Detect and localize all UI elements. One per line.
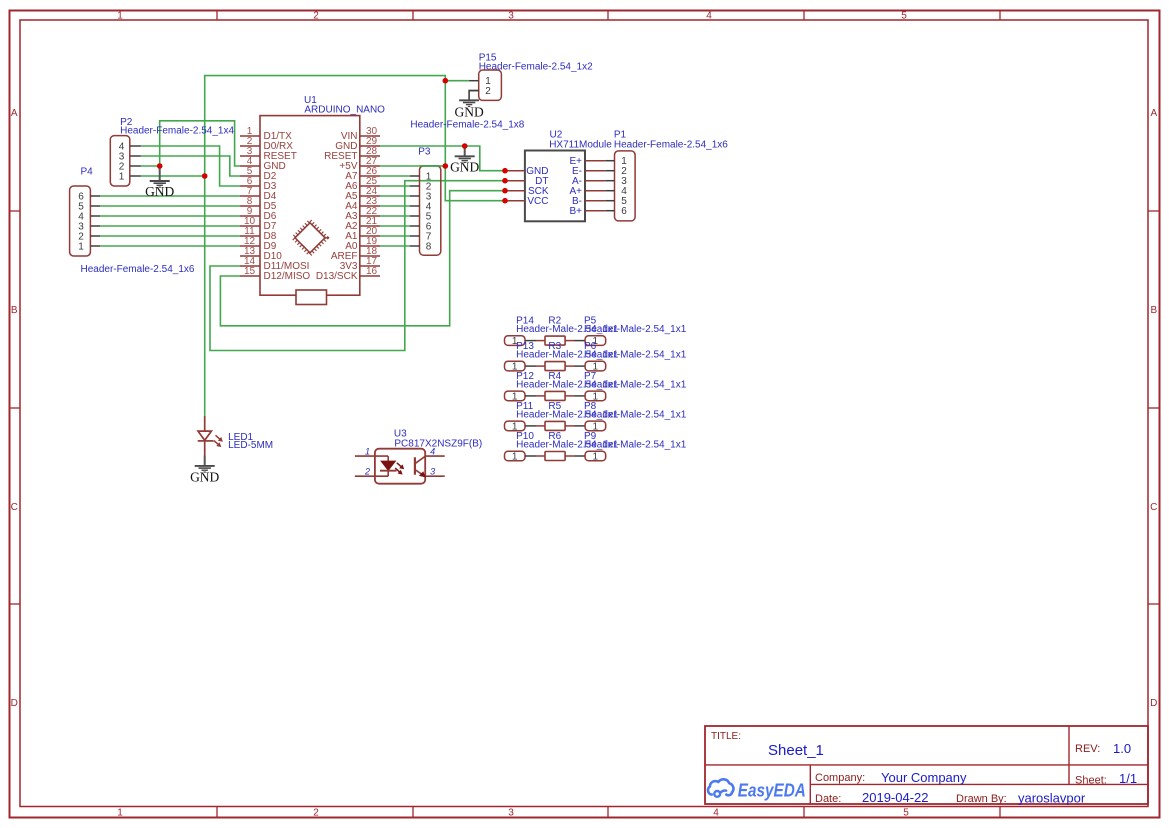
U1 pin 6 D3: [240, 176, 277, 192]
LED LED1 LED-5MM: [198, 416, 273, 456]
U1 pin 17 3V3: [340, 256, 380, 272]
svg-text:Header-Male-2.54_1x1: Header-Male-2.54_1x1: [584, 380, 687, 391]
wire U1 A2 to P3 pin6: [380, 225, 410, 227]
IC U2 HX711Module: [505, 130, 612, 222]
U1 pin 21 A2: [345, 216, 380, 232]
svg-text:Header-Male-2.54_1x1: Header-Male-2.54_1x1: [584, 440, 687, 451]
resistor R2: [536, 316, 575, 346]
connector P1 Header-Female-2.54_1x6: [605, 130, 728, 221]
ground symbol on U1 GND pin29 wire: [450, 146, 479, 175]
svg-text:REV:: REV:: [1075, 743, 1100, 755]
svg-text:yaroslavpor: yaroslavpor: [1018, 791, 1086, 806]
svg-text:1.0: 1.0: [1113, 741, 1131, 756]
U1 pin 15 D12/MISO: [240, 266, 310, 282]
junction P2.1 on +5V: [202, 173, 208, 179]
wire U1 D11/MOSI to U2 DT: [210, 181, 505, 351]
junction U1 +5V: [443, 163, 449, 169]
node U2 VCC: [502, 198, 508, 204]
svg-text:Header-Male-2.54_1x1: Header-Male-2.54_1x1: [584, 324, 687, 335]
svg-text:5: 5: [903, 807, 909, 818]
connector P11 Header-Male-2.54_1x1: [505, 401, 619, 432]
svg-text:D: D: [11, 698, 18, 709]
U1 pin 10 D7: [240, 216, 277, 232]
svg-text:A: A: [1150, 108, 1157, 119]
svg-text:D: D: [1150, 698, 1157, 709]
connector P9 Header-Male-2.54_1x1: [575, 431, 687, 462]
node U2 GND: [502, 168, 508, 174]
U3 pin 4: [425, 446, 445, 456]
junction GND symbol pin29: [462, 143, 468, 149]
resistor R5: [536, 401, 575, 431]
svg-text:Header-Female-2.54_1x8: Header-Female-2.54_1x8: [410, 120, 524, 131]
wire P4.5 to U1 D5: [100, 205, 240, 207]
svg-text:D12/MISO: D12/MISO: [264, 271, 311, 282]
svg-text:Sheet_1: Sheet_1: [768, 742, 824, 759]
U1 pin 27 +5V: [339, 156, 380, 172]
node U2 SCK: [502, 188, 508, 194]
U3 phototransistor: [415, 456, 426, 477]
wire U1 A0 to P3 pin8: [380, 245, 410, 247]
optocoupler U3 PC817X2NSZ9F(B): [375, 428, 482, 483]
svg-text:GND: GND: [145, 184, 174, 199]
resistor R6: [536, 431, 575, 461]
svg-text:B: B: [1150, 305, 1157, 316]
wire U1 A1 to P3 pin7: [380, 235, 410, 237]
wire +5V crossing over P3 top edge: [420, 165, 441, 167]
wire U1 A3 to P3 pin5: [380, 215, 410, 217]
wire U1 GND pin29 to U2 GND: [380, 146, 505, 171]
svg-text:A: A: [11, 108, 18, 119]
svg-text:ARDUINO_NANO: ARDUINO_NANO: [304, 104, 385, 115]
connector P14 Header-Male-2.54_1x1: [505, 316, 619, 347]
junction P15.1: [443, 78, 449, 84]
svg-text:R5: R5: [548, 401, 561, 412]
connector P3 Header-Female-2.54_1x8: [410, 120, 525, 256]
svg-text:1: 1: [593, 451, 599, 462]
svg-text:GND: GND: [450, 160, 479, 175]
svg-text:2: 2: [485, 86, 491, 97]
svg-text:16: 16: [366, 266, 378, 277]
U1 pin 29 GND: [335, 136, 380, 152]
connector P2 Header-Female-2.54_1x4: [110, 117, 234, 186]
svg-text:R2: R2: [548, 316, 561, 327]
U1 pin 8 D5: [240, 196, 277, 212]
wire U1 D12/MISO to U2 SCK: [220, 191, 505, 326]
U1 pin 7 D4: [240, 186, 277, 202]
svg-text:2019-04-22: 2019-04-22: [862, 790, 929, 805]
U1 pin 18 AREF: [331, 246, 380, 262]
wire P4.3 to U1 D7: [100, 225, 240, 227]
wire +5V net: LED anode / P2.1 / P15.1 / U1 +5V / U2 VCC: [205, 76, 505, 416]
U1 pin 12 D9: [240, 236, 277, 252]
connector P13 Header-Male-2.54_1x1: [505, 341, 619, 372]
svg-text:1: 1: [365, 446, 370, 456]
svg-text:Drawn By:: Drawn By:: [956, 793, 1007, 805]
svg-text:2: 2: [313, 10, 319, 21]
svg-text:3: 3: [508, 807, 514, 818]
U1 pin 1 D1/TX: [240, 126, 292, 142]
U1 MCU diamond symbol: [293, 221, 327, 255]
wire P2.4 to U1 D3: [141, 146, 240, 186]
ground symbol at P15 pin 2: [454, 91, 483, 120]
U1 pin 14 D11/MOSI: [240, 256, 309, 272]
svg-text:C: C: [11, 502, 18, 513]
svg-text:4: 4: [430, 446, 435, 456]
connector P4 Header-Female-2.54_1x6: [70, 166, 195, 274]
U1 pin 2 D0/RX: [240, 136, 293, 152]
U1 pin 20 A1: [345, 226, 380, 242]
connector P12 Header-Male-2.54_1x1: [505, 371, 619, 402]
wire P4.6 to U1 D4: [100, 195, 240, 197]
wire GND net to U1 GND pin4: [160, 121, 240, 166]
svg-text:2: 2: [364, 467, 370, 477]
U1 pin 23 A4: [345, 196, 380, 212]
connector P5 Header-Male-2.54_1x1: [575, 316, 687, 347]
svg-text:R4: R4: [548, 371, 561, 382]
svg-text:HX711Module: HX711Module: [549, 139, 612, 150]
junction P2.2/GND: [157, 163, 163, 169]
connector P10 Header-Male-2.54_1x1: [505, 431, 619, 462]
U1 pin 13 D10: [240, 246, 282, 262]
svg-text:EasyEDA: EasyEDA: [738, 781, 806, 801]
node U2 DT: [502, 178, 508, 184]
svg-text:VCC: VCC: [527, 196, 548, 207]
svg-text:5: 5: [901, 10, 907, 21]
wire P2.3 to U1 D2: [141, 156, 240, 176]
U1 pin 4 GND: [240, 156, 286, 172]
svg-text:B+: B+: [569, 206, 582, 217]
svg-text:1: 1: [78, 241, 84, 252]
svg-text:PC817X2NSZ9F(B): PC817X2NSZ9F(B): [394, 438, 482, 449]
svg-text:1/1: 1/1: [1119, 771, 1137, 786]
svg-text:2: 2: [313, 807, 319, 818]
wire U1 A7 to P3 pin1: [380, 175, 410, 177]
svg-text:R3: R3: [548, 341, 561, 352]
wire U1 A6 to P3 pin2: [380, 185, 410, 187]
svg-text:Date:: Date:: [815, 793, 841, 805]
U1 pin 3 RESET: [240, 146, 297, 162]
svg-text:LED-5MM: LED-5MM: [228, 440, 273, 451]
EasyEDA logo: [708, 779, 806, 800]
ground symbol at LED1 cathode: [190, 456, 219, 485]
U1 pin 30 VIN: [341, 126, 380, 142]
svg-text:1: 1: [119, 171, 125, 182]
svg-text:4: 4: [706, 10, 712, 21]
svg-text:B: B: [11, 305, 18, 316]
U3 pin 3: [425, 467, 445, 477]
svg-text:Header-Male-2.54_1x1: Header-Male-2.54_1x1: [584, 350, 687, 361]
svg-text:D13/SCK: D13/SCK: [316, 271, 358, 282]
svg-text:15: 15: [244, 266, 256, 277]
svg-text:Header-Male-2.54_1x1: Header-Male-2.54_1x1: [584, 410, 687, 421]
svg-text:Header-Female-2.54_1x6: Header-Female-2.54_1x6: [614, 139, 728, 150]
svg-text:1: 1: [117, 807, 123, 818]
resistor R4: [536, 371, 575, 401]
svg-text:1: 1: [512, 451, 518, 462]
ground symbol at P2 pin 2: [145, 166, 174, 199]
U3 pin 2: [355, 467, 388, 477]
U3 internal LED: [380, 456, 404, 476]
svg-text:TITLE:: TITLE:: [711, 731, 741, 742]
U1 pin 16 D13/SCK: [316, 266, 380, 282]
U3 pin 1: [355, 446, 388, 456]
svg-text:P3: P3: [418, 146, 431, 157]
wire U1 +5V pin27 to +5V net: [380, 165, 445, 167]
svg-text:P4: P4: [81, 166, 94, 177]
svg-text:Your Company: Your Company: [881, 770, 967, 785]
connector P6 Header-Male-2.54_1x1: [575, 341, 687, 372]
wire U1 A4 to P3 pin4: [380, 205, 410, 207]
wire P2.1 to +5V net: [141, 175, 205, 177]
wire U1 A5 to P3 pin3: [380, 195, 410, 197]
svg-text:Company:: Company:: [815, 772, 865, 784]
U1 pin 25 A6: [345, 176, 380, 192]
svg-text:R6: R6: [548, 431, 561, 442]
title block: [705, 726, 1148, 806]
svg-text:3: 3: [508, 10, 514, 21]
wire P4.1 to U1 D9: [100, 245, 240, 247]
wire P4.2 to U1 D8: [100, 235, 240, 237]
svg-text:Header-Female-2.54_1x6: Header-Female-2.54_1x6: [81, 264, 195, 275]
connector P7 Header-Male-2.54_1x1: [575, 371, 687, 402]
wire P15 pin1 to +5V net: [445, 80, 469, 82]
svg-text:C: C: [1150, 502, 1157, 513]
U1 pin 11 D8: [240, 226, 277, 242]
U1 pin 26 A7: [345, 166, 380, 182]
wire P2.2 to GND: [141, 165, 160, 167]
U1 pin 24 A5: [345, 186, 380, 202]
connector P8 Header-Male-2.54_1x1: [575, 401, 687, 432]
connector P15 Header-Female-2.54_1x2: [469, 52, 593, 100]
svg-text:GND: GND: [454, 104, 483, 119]
wire P4.4 to U1 D6: [100, 215, 240, 217]
svg-text:Header-Female-2.54_1x4: Header-Female-2.54_1x4: [120, 125, 234, 136]
svg-text:Sheet:: Sheet:: [1075, 775, 1107, 787]
U1 pin 19 A0: [345, 236, 380, 252]
svg-text:1: 1: [117, 10, 123, 21]
U1 pin 9 D6: [240, 206, 277, 222]
svg-text:6: 6: [621, 206, 627, 217]
IC U1 ARDUINO_NANO body: [260, 95, 385, 295]
svg-text:4: 4: [713, 807, 719, 818]
U1 pin 22 A3: [345, 206, 380, 222]
U1 crystal rectangle: [296, 290, 327, 305]
resistor R3: [536, 341, 575, 371]
U1 pin 28 RESET: [324, 146, 380, 162]
svg-text:3: 3: [430, 467, 435, 477]
svg-text:8: 8: [426, 241, 432, 252]
svg-text:GND: GND: [190, 470, 219, 485]
U1 pin 5 D2: [240, 166, 277, 182]
